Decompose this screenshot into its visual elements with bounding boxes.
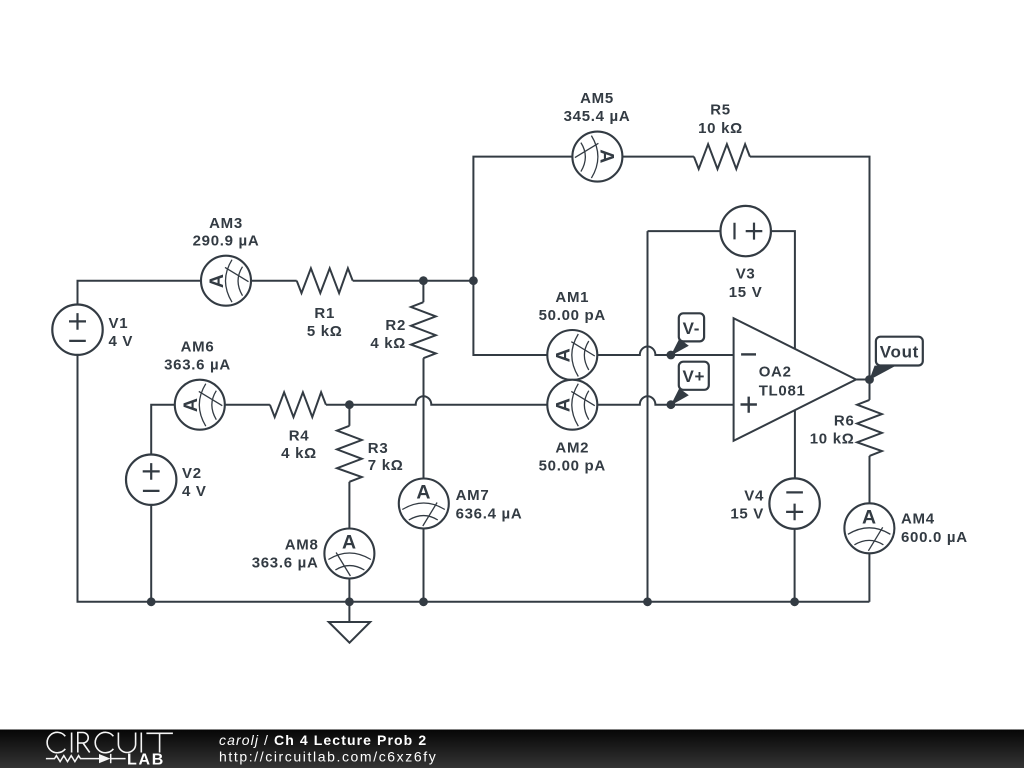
- svg-text:LAB: LAB: [127, 752, 165, 768]
- svg-text:R6: R6: [834, 413, 855, 430]
- svg-text:50.00 pA: 50.00 pA: [539, 307, 606, 324]
- op-amp OA2: [734, 318, 856, 441]
- resistor R3: [337, 426, 362, 482]
- wire AM1 to op-amp minus input with hop: [597, 347, 733, 356]
- op-amp minus input mark: [741, 353, 756, 355]
- op-amp plus input mark: [741, 397, 757, 413]
- svg-text:4 V: 4 V: [109, 333, 134, 350]
- node rail V4: [790, 597, 799, 606]
- svg-text:A: A: [595, 149, 617, 164]
- wire V1 top to AM3: [78, 281, 202, 305]
- svg-text:V3: V3: [736, 266, 756, 283]
- wire op-amp bottom to V4: [794, 410, 796, 478]
- node rail ground: [345, 597, 354, 606]
- resistor R2: [411, 302, 436, 358]
- wire R6 to AM4: [869, 456, 871, 503]
- node rail AM7: [419, 597, 428, 606]
- bottom bar: [0, 730, 1024, 768]
- wire AM5 to R5: [622, 156, 694, 158]
- svg-text:AM7: AM7: [456, 487, 490, 504]
- ammeter AM7: [399, 479, 449, 529]
- svg-text:V4: V4: [744, 487, 764, 504]
- svg-text:AM5: AM5: [580, 90, 614, 107]
- svg-text:R1: R1: [314, 305, 335, 322]
- ammeter AM5: [572, 132, 622, 182]
- svg-text:A: A: [180, 397, 202, 412]
- wire AM2 to op-amp plus input with hop: [597, 396, 733, 405]
- voltage source V2: [126, 455, 176, 505]
- svg-text:R2: R2: [385, 317, 406, 334]
- svg-text:290.9 µA: 290.9 µA: [193, 233, 260, 250]
- node V-: [667, 351, 676, 360]
- svg-text:R5: R5: [710, 102, 731, 119]
- svg-text:7 kΩ: 7 kΩ: [368, 457, 404, 474]
- wire AM3 to R1: [251, 280, 297, 282]
- wire R2 bottom to AM7: [423, 358, 425, 478]
- wire AM6 to R4: [225, 404, 270, 406]
- svg-text:R4: R4: [289, 428, 310, 445]
- svg-text:636.4 µA: 636.4 µA: [456, 506, 523, 523]
- svg-text:600.0 µA: 600.0 µA: [901, 529, 968, 546]
- ammeter AM4: [844, 503, 894, 553]
- wire node up to top row and right to AM5: [473, 157, 572, 281]
- wire V3 left column down to rail: [647, 231, 649, 602]
- flag Vout: [869, 337, 923, 380]
- wire R1 to node: [353, 280, 474, 282]
- resistor R1: [297, 268, 353, 293]
- wire V3 right lead down to op-amp top: [771, 231, 795, 349]
- svg-text:A: A: [552, 348, 574, 363]
- flag V-: [671, 313, 705, 356]
- wire op-amp output: [856, 379, 870, 381]
- svg-text:AM6: AM6: [181, 339, 215, 356]
- wire AM8 to rail: [348, 579, 350, 602]
- svg-text:V-: V-: [683, 319, 700, 338]
- node output: [865, 375, 874, 384]
- wire node down to AM1: [473, 281, 547, 355]
- svg-text:10 kΩ: 10 kΩ: [698, 120, 743, 137]
- svg-text:A: A: [206, 273, 228, 288]
- svg-text:A: A: [552, 397, 574, 412]
- wire bottom rail: [78, 355, 870, 602]
- svg-text:AM3: AM3: [209, 215, 243, 232]
- svg-text:10 kΩ: 10 kΩ: [810, 431, 855, 448]
- ground: [329, 622, 371, 643]
- svg-text:345.4 µA: 345.4 µA: [564, 108, 631, 125]
- flag V+: [671, 362, 709, 406]
- svg-text:Vout: Vout: [880, 342, 919, 361]
- svg-text:50.00 pA: 50.00 pA: [539, 458, 606, 475]
- node V+: [667, 400, 676, 409]
- node R4/R3: [345, 400, 354, 409]
- svg-text:15 V: 15 V: [730, 505, 764, 522]
- ammeter AM1: [547, 330, 597, 380]
- svg-text:TL081: TL081: [759, 383, 806, 400]
- wire R3 top stub: [348, 405, 350, 426]
- svg-text:AM2: AM2: [555, 440, 589, 457]
- svg-text:A: A: [862, 506, 877, 528]
- svg-text:A: A: [416, 482, 431, 504]
- resistor R4: [270, 392, 326, 417]
- svg-text:363.6 µA: 363.6 µA: [252, 555, 319, 572]
- svg-text:V2: V2: [182, 465, 202, 482]
- wire AM7 to bottom rail: [423, 529, 425, 602]
- node rail V3 column: [643, 597, 652, 606]
- voltage source V1: [52, 305, 102, 355]
- voltage source V4: [769, 478, 819, 528]
- resistor R5: [694, 144, 750, 169]
- svg-text:V1: V1: [109, 315, 129, 332]
- wire V4 to rail: [794, 529, 796, 602]
- wire ground stub: [348, 602, 350, 622]
- svg-text:R3: R3: [368, 440, 389, 457]
- wire R3 to AM8: [348, 482, 350, 529]
- svg-text:AM4: AM4: [901, 510, 935, 527]
- ammeter AM3: [201, 256, 251, 306]
- svg-text:AM1: AM1: [555, 289, 589, 306]
- svg-text:4 V: 4 V: [182, 483, 207, 500]
- logo resistor-diode: [46, 754, 126, 763]
- ammeter AM2: [547, 380, 597, 430]
- svg-text:A: A: [342, 532, 357, 554]
- node R1 output: [469, 276, 478, 285]
- svg-text:http://circuitlab.com/c6xz6fy: http://circuitlab.com/c6xz6fy: [219, 749, 437, 765]
- svg-text:carolj / Ch 4 Lecture Prob 2: carolj / Ch 4 Lecture Prob 2: [219, 732, 427, 748]
- svg-text:363.6 µA: 363.6 µA: [164, 357, 231, 374]
- svg-text:AM8: AM8: [285, 537, 319, 554]
- svg-text:4 kΩ: 4 kΩ: [370, 335, 406, 352]
- wire V3 left lead: [648, 230, 721, 232]
- wire R4 to AM2 with hop over R2 column: [326, 396, 547, 405]
- svg-text:OA2: OA2: [759, 364, 792, 381]
- logo CIRCUIT: [47, 732, 173, 752]
- svg-text:V+: V+: [682, 367, 705, 386]
- svg-text:4 kΩ: 4 kΩ: [281, 445, 317, 462]
- svg-text:15 V: 15 V: [729, 284, 763, 301]
- svg-text:5 kΩ: 5 kΩ: [307, 323, 343, 340]
- node R2 top: [419, 276, 428, 285]
- wire AM4 to rail: [868, 553, 870, 602]
- resistor R6: [857, 400, 882, 456]
- wire output down to R6: [869, 380, 871, 400]
- wire V2 to AM6: [151, 405, 175, 455]
- voltage source V3: [721, 206, 771, 256]
- ammeter AM8: [324, 529, 374, 579]
- wire R2 top stub: [422, 281, 424, 303]
- node rail V2: [147, 597, 156, 606]
- wire R5 to output column: [750, 157, 870, 380]
- wire V2 bottom: [150, 505, 152, 602]
- ammeter AM6: [175, 380, 225, 430]
